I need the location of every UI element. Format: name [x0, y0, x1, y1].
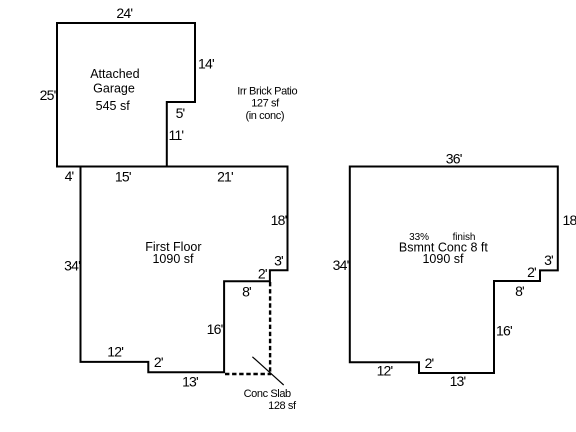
svg-text:24': 24': [116, 5, 132, 21]
svg-text:(in conc): (in conc): [246, 110, 285, 122]
svg-text:4': 4': [65, 168, 74, 184]
svg-text:12': 12': [377, 363, 393, 379]
svg-text:Irr Brick Patio: Irr Brick Patio: [237, 86, 297, 98]
svg-text:8': 8': [242, 284, 251, 300]
svg-text:15': 15': [115, 169, 131, 185]
svg-text:21': 21': [217, 169, 233, 185]
svg-text:18': 18': [563, 212, 576, 228]
svg-text:34': 34': [64, 258, 80, 274]
svg-text:finish: finish: [453, 232, 476, 243]
svg-text:2': 2': [154, 354, 163, 370]
svg-text:13': 13': [182, 374, 198, 390]
svg-text:Conc Slab: Conc Slab: [244, 388, 291, 400]
svg-text:2': 2': [425, 355, 434, 371]
svg-text:2': 2': [258, 265, 267, 281]
svg-text:2': 2': [527, 264, 536, 280]
svg-text:14': 14': [198, 56, 214, 72]
svg-text:8': 8': [515, 283, 524, 299]
svg-text:3': 3': [544, 252, 553, 268]
svg-text:Garage: Garage: [93, 81, 135, 95]
svg-text:1090 sf: 1090 sf: [422, 252, 464, 266]
svg-text:36': 36': [446, 151, 462, 167]
svg-text:Attached: Attached: [90, 67, 139, 81]
svg-text:3': 3': [274, 252, 283, 268]
svg-text:16': 16': [496, 323, 512, 339]
svg-text:25': 25': [40, 87, 56, 103]
svg-text:16': 16': [207, 321, 223, 337]
svg-text:34': 34': [333, 257, 349, 273]
svg-text:13': 13': [450, 373, 466, 389]
svg-text:33%: 33%: [409, 232, 429, 243]
svg-text:128 sf: 128 sf: [268, 400, 297, 412]
svg-text:127 sf: 127 sf: [251, 98, 280, 110]
svg-text:545 sf: 545 sf: [96, 99, 131, 113]
svg-text:11': 11': [169, 127, 184, 143]
svg-text:5': 5': [176, 105, 185, 121]
svg-text:12': 12': [107, 344, 123, 360]
svg-text:18': 18': [271, 212, 287, 228]
svg-text:1090 sf: 1090 sf: [152, 252, 194, 266]
